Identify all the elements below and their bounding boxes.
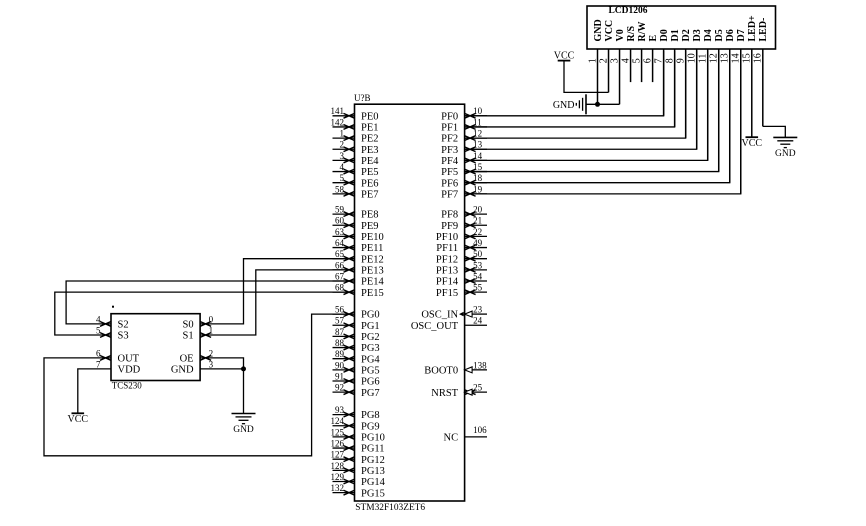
svg-text:D5: D5 [714, 29, 725, 41]
pin PG13 (128) [331, 461, 385, 477]
svg-text:93: 93 [335, 405, 345, 415]
svg-text:PF11: PF11 [436, 243, 458, 254]
svg-text:PG15: PG15 [361, 488, 385, 499]
svg-text:12: 12 [473, 129, 482, 139]
LCD pin 9 D2 lead [675, 29, 692, 138]
sensor TCS230 body [111, 314, 200, 391]
svg-text:PE8: PE8 [361, 210, 379, 221]
wire PF7 to LCD pin 14 D7 [465, 51, 741, 194]
wire PE14 (67) to S2 [66, 281, 354, 324]
svg-text:87: 87 [335, 327, 345, 337]
svg-text:R/S: R/S [626, 26, 637, 42]
svg-text:D1: D1 [670, 29, 681, 41]
svg-text:PE11: PE11 [361, 243, 383, 254]
svg-text:13: 13 [473, 140, 483, 150]
svg-text:PG9: PG9 [361, 421, 380, 432]
svg-text:1: 1 [209, 325, 214, 335]
pin PE3 (2) [333, 140, 379, 156]
LCD pin 14 D7 lead [731, 29, 748, 194]
pin S0 (0) TCS230 [183, 314, 214, 330]
pin PG11 (126) [331, 438, 385, 454]
svg-text:2: 2 [340, 140, 345, 150]
pin PE7 (58) [333, 184, 379, 200]
svg-text:19: 19 [473, 184, 483, 194]
svg-text:OSC_IN: OSC_IN [421, 310, 458, 321]
svg-text:89: 89 [335, 349, 345, 359]
LCD pin 5 R/W lead [631, 22, 648, 83]
svg-text:8: 8 [664, 58, 675, 63]
pin PE5 (4) [333, 162, 379, 178]
LCD pin 13 D6 lead [720, 29, 737, 182]
pin PE2 (1) [333, 129, 379, 145]
pin PG3 (88) [333, 338, 380, 354]
svg-text:LED+: LED+ [747, 15, 758, 42]
svg-text:PE12: PE12 [361, 254, 384, 265]
svg-text:132: 132 [331, 483, 345, 493]
svg-text:13: 13 [720, 53, 731, 63]
svg-text:D3: D3 [692, 29, 703, 41]
svg-text:141: 141 [331, 106, 345, 116]
pin PG15 (132) [331, 483, 385, 499]
LCD pin 15 LED+ lead [742, 15, 759, 137]
pin PG14 (129) [331, 472, 386, 488]
junction dot LCD pin1/GND [595, 102, 600, 107]
ground GND (TCS230) [232, 414, 256, 436]
connector LCD1206 body [587, 6, 776, 49]
pin PG12 (127) [331, 450, 385, 466]
LCD pin 10 D3 lead [686, 29, 703, 149]
LCD pin 4 R/S lead [620, 26, 637, 83]
svg-text:VCC: VCC [604, 20, 615, 42]
svg-text:STM32F103ZET6: STM32F103ZET6 [355, 503, 425, 513]
svg-text:D7: D7 [736, 29, 747, 41]
svg-text:91: 91 [335, 371, 344, 381]
svg-text:55: 55 [473, 283, 483, 293]
svg-text:PF5: PF5 [441, 167, 458, 178]
svg-text:12: 12 [709, 53, 720, 63]
svg-text:3: 3 [609, 58, 620, 63]
pin PG4 (89) [333, 349, 381, 365]
svg-text:PF1: PF1 [441, 123, 458, 134]
svg-text:5: 5 [340, 173, 345, 183]
pin PG5 (90) [333, 360, 380, 376]
pin PF5 (15) [441, 162, 487, 178]
svg-text:9: 9 [675, 58, 686, 63]
wire PG0 (56) to OUT [44, 314, 355, 456]
svg-text:D0: D0 [659, 29, 670, 41]
svg-text:129: 129 [331, 472, 345, 482]
svg-text:PG1: PG1 [361, 321, 380, 332]
svg-text:1: 1 [340, 129, 345, 139]
wire PE13 (66) to S1 [200, 270, 354, 335]
svg-text:VCC: VCC [741, 138, 762, 149]
wire OE to ground net [200, 358, 243, 369]
svg-text:4: 4 [96, 314, 101, 324]
svg-text:23: 23 [473, 305, 483, 315]
svg-text:PF6: PF6 [441, 178, 458, 189]
pin PG9 (124) [331, 416, 380, 432]
svg-text:NC: NC [444, 433, 459, 444]
svg-text:GND: GND [593, 19, 604, 41]
svg-text:57: 57 [335, 316, 345, 326]
pin OUT (6) TCS230 [96, 348, 140, 364]
svg-text:66: 66 [335, 260, 345, 270]
ground GND (LCD pins 1,3) rotated symbol [553, 94, 586, 114]
svg-text:20: 20 [473, 205, 483, 215]
svg-text:127: 127 [331, 450, 345, 460]
svg-text:PG10: PG10 [361, 433, 385, 444]
power VCC (TCS230 VDD) [68, 413, 89, 425]
pin PG8 (93) [333, 405, 380, 421]
wire PF3 to LCD pin 10 D3 [465, 51, 697, 149]
pin PG6 (91) [333, 371, 380, 387]
svg-text:PG6: PG6 [361, 377, 380, 388]
power VCC (to LCD pin 2) [554, 50, 575, 61]
LCD pin 3 V0 lead [609, 29, 626, 104]
svg-text:16: 16 [753, 53, 764, 63]
svg-text:4: 4 [620, 58, 631, 63]
pin PF13 (53) [436, 260, 487, 276]
svg-text:PF8: PF8 [441, 210, 458, 221]
svg-text:6: 6 [642, 58, 653, 63]
svg-text:21: 21 [473, 216, 482, 226]
pin PG7 (92) [333, 383, 380, 399]
pin PF0 (10) [441, 106, 487, 122]
svg-text:S2: S2 [118, 320, 129, 331]
svg-text:5: 5 [96, 325, 101, 335]
pin PE12 (65) [333, 249, 384, 265]
svg-text:PF13: PF13 [436, 265, 458, 276]
ground GND (LCD pin16) [773, 137, 797, 159]
pin PE0 (141) [331, 106, 379, 122]
pin PE8 (59) [333, 205, 379, 221]
svg-text:88: 88 [335, 338, 345, 348]
svg-text:PG2: PG2 [361, 332, 380, 343]
svg-text:R/W: R/W [637, 22, 648, 42]
svg-text:3: 3 [209, 359, 214, 369]
pin NRST (25) [431, 383, 487, 399]
svg-text:22: 22 [473, 227, 482, 237]
svg-text:V0: V0 [615, 29, 626, 41]
svg-text:67: 67 [335, 271, 345, 281]
svg-text:PG0: PG0 [361, 310, 380, 321]
wire PF2 to LCD pin 9 D2 [465, 51, 686, 138]
svg-text:PE2: PE2 [361, 134, 379, 145]
wire PE12 (65) to S0 [200, 259, 354, 324]
svg-text:LED-: LED- [758, 18, 769, 42]
svg-text:PE7: PE7 [361, 189, 379, 200]
pin PG0 (56) [333, 305, 380, 321]
LCD pin 1 GND lead [587, 19, 604, 104]
svg-text:68: 68 [335, 283, 345, 293]
svg-text:PF2: PF2 [441, 134, 458, 145]
svg-text:PG13: PG13 [361, 466, 385, 477]
pin PF14 (54) [436, 271, 487, 287]
IC U?B STM32F103ZET6 body [354, 93, 465, 513]
svg-text:VCC: VCC [554, 50, 575, 61]
svg-text:PF14: PF14 [436, 277, 459, 288]
LCD pin 12 D5 lead [709, 29, 726, 171]
svg-text:NRST: NRST [431, 388, 458, 399]
svg-text:PE1: PE1 [361, 123, 379, 134]
LCD pin 7 D0 lead [653, 29, 670, 116]
svg-text:PE6: PE6 [361, 178, 379, 189]
pin GND (3) TCS230 [171, 359, 214, 375]
pin PG10 (125) [331, 427, 385, 443]
svg-text:GND: GND [171, 365, 194, 376]
LCD pin 6 E lead [642, 35, 659, 83]
LCD pin 2 VCC lead [598, 20, 615, 93]
marker dot above TCS230 [112, 306, 114, 308]
pin S3 (5) TCS230 [96, 325, 129, 341]
svg-text:2: 2 [209, 348, 214, 358]
svg-text:E: E [648, 35, 659, 42]
svg-text:54: 54 [473, 271, 483, 281]
svg-text:3: 3 [340, 151, 345, 161]
pin PE11 (64) [333, 238, 384, 254]
svg-text:92: 92 [335, 383, 344, 393]
pin PE14 (67) [333, 271, 385, 287]
pin PE13 (66) [333, 260, 384, 276]
svg-text:PF12: PF12 [436, 254, 458, 265]
svg-text:U?B: U?B [354, 93, 371, 103]
svg-text:49: 49 [473, 238, 483, 248]
pin PF15 (55) [436, 283, 487, 299]
pin PE15 (68) [333, 283, 384, 299]
svg-text:PG5: PG5 [361, 365, 380, 376]
LCD pin 8 D1 lead [664, 29, 681, 127]
svg-text:1: 1 [587, 58, 598, 63]
pin PF2 (12) [441, 129, 487, 145]
svg-text:S1: S1 [183, 331, 194, 342]
svg-text:PE15: PE15 [361, 288, 384, 299]
pin PF3 (13) [441, 140, 487, 156]
pin PF12 (50) [436, 249, 487, 265]
wire PF5 to LCD pin 12 D5 [465, 51, 719, 172]
svg-text:128: 128 [331, 461, 345, 471]
pin S1 (1) TCS230 [183, 325, 214, 341]
svg-text:58: 58 [335, 184, 345, 194]
svg-text:PF10: PF10 [436, 232, 458, 243]
svg-text:TCS230: TCS230 [112, 381, 143, 391]
pin PF1 (11) [441, 117, 487, 133]
svg-text:PG3: PG3 [361, 343, 380, 354]
pin PE4 (3) [333, 151, 380, 167]
svg-text:PF9: PF9 [441, 221, 458, 232]
svg-text:D2: D2 [681, 29, 692, 41]
pin PG2 (87) [333, 327, 380, 343]
wire PF4 to LCD pin 11 D4 [465, 51, 708, 160]
svg-text:S3: S3 [118, 331, 129, 342]
svg-text:7: 7 [96, 359, 101, 369]
svg-text:124: 124 [331, 416, 345, 426]
pin VDD (7) TCS230 [96, 359, 141, 375]
svg-text:138: 138 [473, 360, 487, 370]
pin PF9 (21) [441, 216, 487, 232]
pin OSC_OUT (24) [411, 316, 487, 332]
pin PF10 (22) [436, 227, 487, 243]
pin PF8 (20) [441, 205, 487, 221]
svg-text:OE: OE [180, 354, 194, 365]
svg-text:6: 6 [96, 348, 101, 358]
svg-text:PF0: PF0 [441, 111, 458, 122]
wire VCC to LCD pin2 [564, 61, 609, 93]
svg-text:15: 15 [742, 53, 753, 63]
svg-text:126: 126 [331, 438, 345, 448]
svg-text:11: 11 [473, 117, 482, 127]
svg-text:10: 10 [473, 106, 483, 116]
pin PF11 (49) [436, 238, 487, 254]
svg-text:25: 25 [473, 383, 483, 393]
pin PE10 (63) [333, 227, 384, 243]
pin PE6 (5) [333, 173, 379, 189]
pin BOOT0 (138) [424, 360, 487, 376]
pin OE (2) TCS230 [180, 348, 214, 364]
svg-text:GND: GND [553, 100, 575, 111]
svg-text:PE9: PE9 [361, 221, 379, 232]
svg-text:90: 90 [335, 360, 345, 370]
wire PE15 (68) to S3 [55, 292, 355, 335]
svg-text:65: 65 [335, 249, 345, 259]
pin PF4 (14) [441, 151, 487, 167]
svg-text:125: 125 [331, 427, 345, 437]
pin S2 (4) TCS230 [96, 314, 129, 330]
pin PF7 (19) [441, 184, 487, 200]
svg-text:PF7: PF7 [441, 189, 458, 200]
svg-text:PE0: PE0 [361, 111, 379, 122]
svg-text:7: 7 [653, 58, 664, 63]
svg-text:PG12: PG12 [361, 455, 385, 466]
svg-text:4: 4 [340, 162, 345, 172]
svg-text:PE3: PE3 [361, 145, 379, 156]
pin PE1 (142) [331, 117, 379, 133]
svg-text:50: 50 [473, 249, 483, 259]
svg-text:15: 15 [473, 162, 483, 172]
pin PG1 (57) [333, 316, 380, 332]
svg-text:OUT: OUT [118, 354, 140, 365]
wire PF6 to LCD pin 13 D6 [465, 51, 730, 183]
svg-text:PE14: PE14 [361, 277, 385, 288]
svg-text:142: 142 [331, 117, 345, 127]
pin OSC_IN (23) [421, 305, 487, 321]
svg-text:GND: GND [233, 425, 254, 435]
junction dot OE/GND [241, 366, 246, 371]
pin PF6 (18) [441, 173, 487, 189]
svg-text:14: 14 [731, 53, 742, 63]
svg-text:2: 2 [598, 58, 609, 63]
svg-text:S0: S0 [183, 320, 194, 331]
svg-text:OSC_OUT: OSC_OUT [411, 321, 459, 332]
pin NC (106) [444, 425, 488, 443]
wire GND to LCD pins 1 and 3 [586, 103, 620, 105]
svg-text:BOOT0: BOOT0 [424, 365, 458, 376]
wire VDD to VCC [78, 369, 111, 413]
LCD pin 16 LED- lead [753, 18, 770, 127]
svg-text:PG11: PG11 [361, 444, 385, 455]
svg-text:64: 64 [335, 238, 345, 248]
svg-text:PG7: PG7 [361, 388, 380, 399]
svg-text:14: 14 [473, 151, 483, 161]
svg-text:GND: GND [775, 149, 796, 159]
svg-text:PE13: PE13 [361, 265, 384, 276]
svg-text:60: 60 [335, 216, 345, 226]
svg-text:PG4: PG4 [361, 354, 380, 365]
svg-text:PG14: PG14 [361, 477, 386, 488]
svg-text:5: 5 [631, 58, 642, 63]
svg-text:24: 24 [473, 316, 483, 326]
svg-text:PF15: PF15 [436, 288, 458, 299]
svg-text:PF4: PF4 [441, 156, 459, 167]
svg-text:PE4: PE4 [361, 156, 379, 167]
svg-text:10: 10 [686, 53, 697, 63]
wire LCD pin16 LED- to ground [763, 126, 786, 137]
svg-text:PE10: PE10 [361, 232, 384, 243]
svg-text:18: 18 [473, 173, 483, 183]
svg-text:56: 56 [335, 305, 345, 315]
svg-text:VDD: VDD [118, 365, 141, 376]
LCD pin 11 D4 lead [698, 29, 715, 160]
svg-text:PG8: PG8 [361, 410, 380, 421]
svg-text:59: 59 [335, 205, 345, 215]
svg-text:11: 11 [698, 54, 709, 64]
svg-text:PF3: PF3 [441, 145, 458, 156]
svg-text:PE5: PE5 [361, 167, 379, 178]
svg-text:106: 106 [473, 425, 487, 435]
svg-text:LCD1206: LCD1206 [608, 6, 647, 16]
svg-text:D4: D4 [703, 29, 714, 41]
svg-text:63: 63 [335, 227, 345, 237]
svg-text:D6: D6 [725, 29, 736, 41]
power VCC (LCD pin 15 LED+) [741, 137, 762, 149]
svg-text:VCC: VCC [68, 414, 89, 425]
svg-text:53: 53 [473, 260, 483, 270]
pin PE9 (60) [333, 216, 379, 232]
wire PF1 to LCD pin 8 D1 [465, 51, 675, 127]
wire GND pin to ground [200, 369, 243, 414]
svg-text:0: 0 [209, 314, 214, 324]
wire PF0 to LCD pin 7 D0 [465, 51, 664, 116]
